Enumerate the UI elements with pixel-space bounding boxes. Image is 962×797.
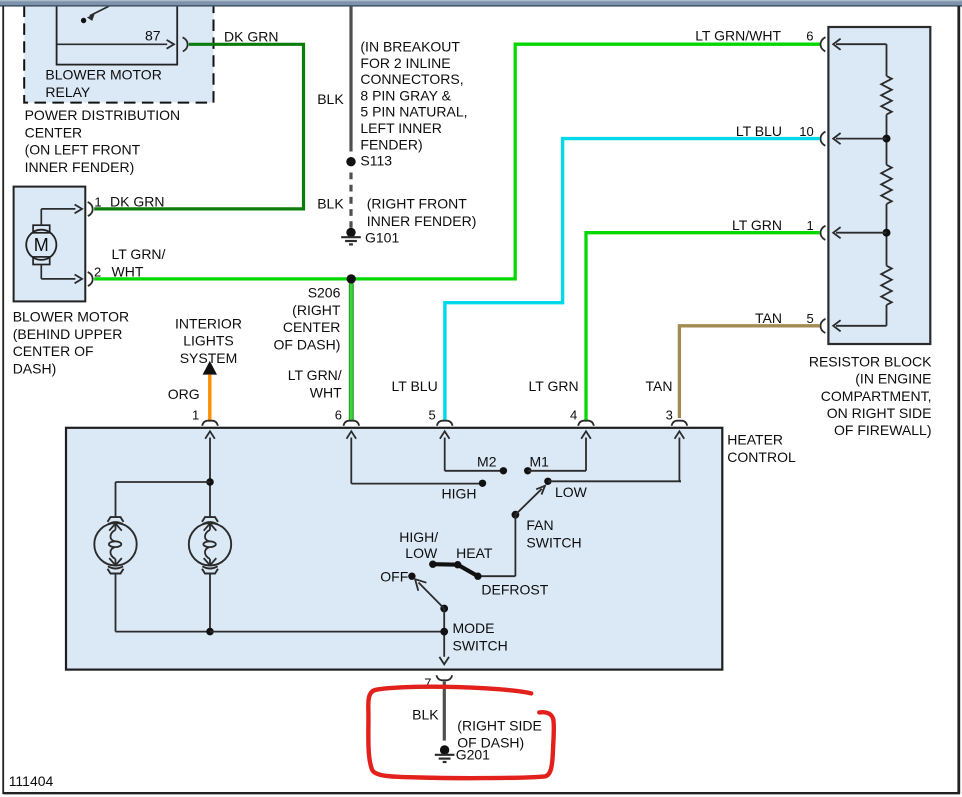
svg-text:LT GRN/: LT GRN/ — [288, 367, 342, 383]
svg-text:BLK: BLK — [412, 706, 439, 722]
svg-text:CENTER: CENTER — [283, 319, 341, 335]
connector, relay pin 87 — [183, 37, 188, 51]
svg-text:LT GRN: LT GRN — [529, 378, 579, 394]
svg-text:FENDER): FENDER) — [360, 136, 422, 152]
wire LT GRN (resistor block pin 1 to heater control pin 4) — [529, 217, 820, 423]
blower motor box — [13, 187, 129, 377]
resistor block box — [809, 27, 932, 438]
wire DK GRN (relay 87 to blower motor) — [94, 28, 303, 209]
svg-text:LT GRN/WHT: LT GRN/WHT — [695, 27, 781, 43]
svg-text:BLOWER MOTOR: BLOWER MOTOR — [13, 308, 129, 324]
svg-text:S206: S206 — [308, 285, 341, 301]
svg-text:G101: G101 — [365, 230, 399, 246]
wire TAN (resistor block pin 5 to heater control pin 3) — [646, 310, 820, 422]
svg-text:HIGH: HIGH — [442, 485, 477, 501]
heater pin 5 internal arrow — [440, 431, 450, 471]
svg-text:LEFT INNER: LEFT INNER — [360, 120, 441, 136]
power distribution center (dashed box) — [24, 0, 213, 103]
wire (fan switch to DEFROST contact) — [480, 515, 516, 577]
svg-text:2: 2 — [94, 264, 101, 279]
fan switch SW1 wiper — [512, 486, 582, 551]
resistor R2 (middle) — [881, 139, 892, 233]
svg-text:DK GRN: DK GRN — [224, 28, 278, 44]
svg-text:ORG: ORG — [168, 386, 200, 402]
connector, heater control pin 5 — [437, 421, 453, 426]
wire (mode switch to pin 7) — [443, 609, 445, 657]
svg-text:M1: M1 — [530, 453, 550, 469]
heater pin 6 internal arrow — [347, 431, 357, 483]
svg-text:DEFROST: DEFROST — [481, 582, 548, 598]
svg-text:M2: M2 — [477, 453, 497, 469]
svg-text:(RIGHT: (RIGHT — [292, 302, 341, 318]
junction node (lamps top) — [206, 478, 214, 486]
svg-text:DK GRN: DK GRN — [110, 193, 164, 209]
resistor R1 (top) — [881, 44, 892, 138]
svg-text:INNER FENDER): INNER FENDER) — [367, 213, 477, 229]
svg-text:RESISTOR BLOCK: RESISTOR BLOCK — [809, 354, 932, 370]
svg-text:1: 1 — [806, 218, 813, 233]
wire (pin 1 to lamp junction) — [209, 482, 211, 517]
svg-text:LT BLU: LT BLU — [392, 378, 438, 394]
svg-text:CONTROL: CONTROL — [727, 449, 796, 465]
wire ORG (interior lights to heater control pin 1) — [168, 375, 210, 423]
connector, blower motor pin 1 — [88, 193, 165, 216]
svg-text:BLK: BLK — [317, 91, 344, 107]
svg-text:FAN: FAN — [526, 517, 553, 533]
svg-text:FOR 2 INLINE: FOR 2 INLINE — [360, 55, 450, 71]
ground G101 — [341, 195, 476, 245]
svg-text:HEAT: HEAT — [456, 545, 493, 561]
svg-text:LIGHTS: LIGHTS — [183, 333, 234, 349]
note (IN BREAKOUT...) — [360, 39, 467, 153]
svg-text:(BEHIND UPPER: (BEHIND UPPER — [13, 326, 123, 342]
heater pin 7 internal arrow — [439, 657, 449, 664]
relay contact (87) — [58, 6, 175, 49]
svg-text:INTERIOR: INTERIOR — [175, 315, 242, 331]
svg-text:5: 5 — [806, 311, 813, 326]
heater pin 1 internal arrow — [205, 431, 215, 482]
svg-text:87: 87 — [145, 28, 161, 44]
resistor block pin 10 arrow — [833, 133, 886, 144]
svg-text:3: 3 — [666, 408, 673, 423]
svg-text:111404: 111404 — [9, 773, 54, 789]
svg-text:(ON LEFT FRONT: (ON LEFT FRONT — [25, 142, 141, 158]
connector, resistor block pin 1 — [820, 226, 825, 240]
svg-text:HEATER: HEATER — [727, 431, 783, 447]
svg-text:1: 1 — [94, 194, 101, 209]
svg-text:WHT: WHT — [310, 385, 342, 401]
wire (pin 5 to M2 contact) — [445, 470, 502, 472]
connector, heater control pin 3 — [672, 421, 688, 426]
wire (right lamp to bottom bus) — [209, 573, 211, 631]
label 111404 — [9, 773, 54, 789]
svg-text:LT BLU: LT BLU — [736, 123, 782, 139]
svg-text:ON RIGHT SIDE: ON RIGHT SIDE — [827, 405, 932, 421]
svg-text:6: 6 — [335, 408, 342, 423]
svg-text:LOW: LOW — [555, 484, 588, 500]
svg-text:COMPARTMENT,: COMPARTMENT, — [821, 388, 932, 404]
relay K1 BLOWER MOTOR RELAY box — [45, 0, 177, 100]
wire BLK dashed (S113 to G101) — [317, 173, 351, 228]
contact LOW — [544, 478, 587, 500]
svg-text:LT GRN: LT GRN — [732, 217, 782, 233]
resistor R3 (bottom) — [881, 233, 892, 326]
wire LT BLU (resistor block pin 10 to heater control pin 5) — [392, 123, 820, 423]
heater control box — [66, 428, 796, 670]
svg-text:WHT: WHT — [112, 264, 144, 280]
svg-text:TAN: TAN — [646, 378, 673, 394]
junction node (lamps bottom) — [206, 628, 214, 636]
ground G201 — [435, 718, 542, 763]
mode switch SW2 wiper — [415, 579, 508, 653]
svg-text:OF DASH): OF DASH) — [457, 735, 524, 751]
svg-text:OF FIREWALL): OF FIREWALL) — [834, 422, 932, 438]
lamp DS2 (illumination, right) — [189, 517, 231, 573]
heater pin 3 internal arrow — [675, 431, 685, 481]
junction node (mode switch / lamp return) — [440, 628, 448, 636]
svg-text:RELAY: RELAY — [45, 84, 91, 100]
svg-text:OF DASH): OF DASH) — [274, 337, 341, 353]
splice S113 — [346, 153, 392, 169]
svg-text:MODE: MODE — [453, 620, 495, 636]
wire BLK (heater control pin 7 to G201) — [412, 682, 444, 741]
annotation: hand-drawn red circle around G201 — [368, 687, 554, 778]
svg-text:SWITCH: SWITCH — [526, 534, 581, 550]
svg-text:BLK: BLK — [317, 196, 344, 212]
contact M2 — [477, 453, 507, 474]
svg-text:HIGH/: HIGH/ — [399, 529, 438, 545]
splice S206 — [274, 274, 356, 352]
svg-text:LT GRN/: LT GRN/ — [112, 246, 166, 262]
connector, resistor block pin 5 — [820, 319, 825, 333]
node INTERIOR LIGHTS SYSTEM (arrow off-page) — [175, 315, 242, 374]
wire (left lamp to bottom bus) — [116, 573, 210, 631]
svg-text:5 PIN NATURAL,: 5 PIN NATURAL, — [360, 104, 467, 120]
connector, heater control pin 4 — [578, 421, 594, 426]
contact M1 — [524, 453, 549, 474]
motor M1 (blower motor) — [26, 205, 82, 284]
svg-text:POWER DISTRIBUTION: POWER DISTRIBUTION — [25, 107, 181, 123]
svg-text:BLOWER MOTOR: BLOWER MOTOR — [45, 66, 161, 82]
svg-text:1: 1 — [192, 408, 199, 423]
junction node (resistor block pin 10) — [883, 135, 891, 143]
svg-text:(RIGHT FRONT: (RIGHT FRONT — [367, 195, 468, 211]
svg-text:10: 10 — [799, 124, 813, 139]
mode switch contacts HIGH/LOW HEAT DEFROST — [399, 529, 548, 598]
svg-text:5: 5 — [428, 408, 435, 423]
connector, blower motor pin 2 — [88, 246, 166, 286]
wire LT GRN/WHT (blower pin 2 to resistor block pin 6) — [94, 27, 820, 279]
resistor block pin 5 arrow — [833, 320, 886, 331]
svg-text:INNER FENDER): INNER FENDER) — [25, 159, 135, 175]
label POWER DISTRIBUTION CENTER — [25, 107, 181, 175]
heater pin 4 internal arrow — [581, 431, 591, 471]
svg-text:LOW: LOW — [405, 545, 438, 561]
connector, resistor block pin 10 — [820, 132, 825, 146]
svg-text:(IN BREAKOUT: (IN BREAKOUT — [360, 39, 460, 55]
wire BLK (to splice S113) — [317, 6, 351, 152]
wire (M1 contact to pin 4) — [528, 470, 586, 472]
connector, heater control pin 7 — [424, 675, 452, 690]
svg-text:TAN: TAN — [755, 310, 782, 326]
contact OFF — [380, 568, 415, 584]
svg-text:(RIGHT SIDE: (RIGHT SIDE — [457, 718, 542, 734]
connector, resistor block pin 6 — [820, 37, 825, 51]
resistor block pin 6 arrow — [833, 39, 886, 50]
resistor block pin 1 arrow — [833, 227, 886, 238]
wire (pin 6 to HIGH contact) — [351, 483, 480, 485]
svg-text:4: 4 — [570, 408, 577, 423]
svg-text:(IN ENGINE: (IN ENGINE — [855, 371, 931, 387]
svg-text:OFF: OFF — [380, 568, 408, 584]
svg-text:8 PIN GRAY &: 8 PIN GRAY & — [360, 87, 451, 103]
wire LT GRN/WHT (S206 to heater control pin 6) — [288, 283, 352, 422]
svg-text:CONNECTORS,: CONNECTORS, — [360, 71, 463, 87]
svg-text:M: M — [34, 235, 49, 255]
wire (bottom bus to mode switch) — [210, 631, 444, 633]
connector, heater control pin 6 — [343, 421, 359, 426]
svg-text:S113: S113 — [360, 153, 392, 169]
connector, heater control pin 1 — [202, 421, 218, 426]
svg-text:DASH): DASH) — [13, 361, 57, 377]
svg-text:6: 6 — [806, 28, 813, 43]
contact HIGH — [442, 480, 487, 502]
svg-text:SWITCH: SWITCH — [453, 638, 508, 654]
svg-text:CENTER: CENTER — [25, 124, 83, 140]
svg-text:CENTER OF: CENTER OF — [13, 343, 94, 359]
wire (LOW contact to pin 3) — [548, 480, 681, 482]
junction node (resistor block pin 1) — [883, 229, 891, 237]
lamp DS1 (illumination, left) — [94, 517, 136, 573]
wire (branch to left lamp) — [116, 482, 211, 517]
